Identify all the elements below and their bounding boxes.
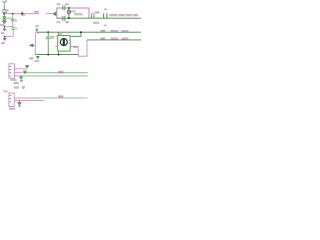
capacitor C6	[47, 31, 49, 33]
rail2	[37, 31, 141, 33]
wire left vertical to bottom rail	[34, 32, 36, 54]
label right of box	[73, 46, 78, 48]
junction rail2	[80, 31, 82, 33]
pin marks inside right	[68, 39, 69, 42]
label right of power symbol	[5, 0, 7, 2]
net label below rail1	[93, 22, 99, 24]
capacitor C1b	[12, 25, 14, 28]
capacitor C1	[12, 18, 14, 19]
mid port arrow down	[36, 28, 38, 30]
transformer U1 box	[58, 36, 70, 52]
wire box right top to rail2	[70, 32, 81, 36]
label C3	[57, 21, 61, 23]
junction top	[68, 7, 70, 9]
wire AC input	[4, 13, 39, 15]
pin tick left top	[55, 35, 58, 37]
ground GND1	[2, 21, 6, 23]
net label below rail2 start	[37, 33, 39, 34]
capacitor C3 bottom	[61, 16, 64, 21]
cap D1 circle	[68, 8, 70, 18]
pin tick left bottom	[55, 46, 58, 48]
port arrow A1	[25, 64, 29, 67]
ground GND2 earth	[3, 26, 5, 28]
capacitor C2 top	[61, 5, 64, 10]
stub box bottom to rail	[58, 51, 60, 54]
capacitor C0	[3, 18, 7, 21]
rail2 labels	[101, 30, 106, 32]
text right of circle	[71, 10, 76, 12]
net name +12V labels	[109, 14, 117, 16]
value C3	[65, 21, 69, 23]
connector J2	[9, 93, 14, 107]
wire J1 pin2 rail	[14, 72, 23, 74]
connector J1	[9, 64, 15, 79]
rail bottom	[35, 54, 78, 56]
ground GND3	[20, 75, 22, 78]
junction	[3, 17, 5, 19]
label C2	[57, 3, 61, 5]
mid port label	[35, 25, 39, 27]
bottom port arrow	[36, 56, 40, 59]
small comp L1 on rail1	[90, 14, 93, 18]
rail3	[87, 39, 141, 41]
value C2	[65, 3, 69, 5]
net label on rail sub2	[58, 95, 63, 98]
varistor RV1	[3, 14, 5, 16]
capacitor pair C4 C5	[103, 14, 104, 18]
label above box	[59, 33, 63, 35]
rail1 +12V	[57, 17, 141, 19]
wire branch	[4, 17, 13, 19]
wire loop	[57, 8, 89, 18]
wire J2 pin1 rail	[14, 97, 20, 99]
junction bottom	[68, 17, 70, 19]
power symbol VCC	[2, 1, 6, 10]
rail3 labels	[101, 38, 106, 40]
ground GND4	[18, 100, 20, 102]
net label end of wire	[34, 11, 39, 13]
port arrow input	[46, 13, 52, 15]
wire to ground 2	[5, 30, 14, 37]
node junction	[3, 13, 5, 15]
net label row2	[14, 86, 19, 88]
net tie junction on wire	[21, 13, 23, 15]
label above sub1	[29, 57, 33, 59]
pin tick right top	[70, 35, 72, 37]
port arrow A2	[23, 70, 27, 73]
port arrow left mid	[29, 44, 33, 47]
wire J1 pin1	[14, 68, 27, 70]
fuse F1	[3, 10, 6, 13]
circle symbol inside	[60, 39, 67, 46]
stub box top to rail2	[58, 32, 60, 35]
wire to ground	[4, 21, 12, 26]
wire drop from main	[12, 14, 14, 19]
wire box right bottom to rail3	[72, 40, 87, 56]
wire J1 pin3 rail	[14, 75, 19, 77]
ground GND2b earth	[4, 37, 6, 38]
label left of J2	[3, 90, 7, 92]
pin tick right bottom	[70, 46, 72, 48]
wire J2 pin2	[14, 99, 44, 101]
net label on rails sub1	[58, 71, 63, 74]
label L1	[95, 11, 100, 13]
